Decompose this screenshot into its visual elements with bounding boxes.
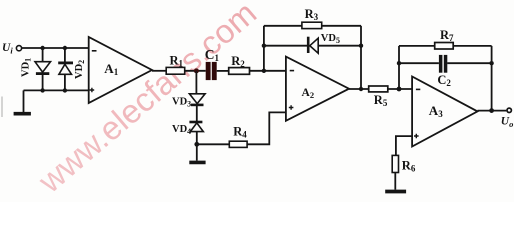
node Ui input terminal — [16, 46, 21, 51]
resistor R1 — [166, 67, 185, 74]
wire R1 to C1 — [185, 70, 206, 72]
svg-text:VD5: VD5 — [321, 33, 340, 45]
svg-text:VD4: VD4 — [172, 124, 191, 136]
wire C2 rail — [399, 62, 492, 64]
node junction C2 left — [397, 61, 401, 65]
wire A3 feedback left vertical — [398, 46, 400, 89]
wire A3 non-inverting to R6 — [396, 136, 412, 155]
diode VD2 — [59, 64, 72, 74]
svg-text:Ui: Ui — [2, 42, 13, 56]
resistor R3 — [302, 22, 322, 28]
node junction VD5 right — [359, 44, 363, 48]
svg-text:A2: A2 — [302, 87, 315, 100]
svg-text:A1: A1 — [104, 61, 118, 77]
svg-text:R7: R7 — [440, 28, 454, 43]
node junction top VD1 — [40, 46, 44, 50]
wire R6 to ground — [394, 173, 396, 190]
wire A1 output to R1 — [152, 70, 166, 72]
svg-text:A3: A3 — [429, 103, 443, 119]
svg-text:C2: C2 — [437, 73, 451, 88]
node junction A2 output — [359, 87, 363, 91]
capacitor C1 — [206, 62, 211, 80]
wire to ground left — [23, 90, 25, 112]
svg-text:R6: R6 — [402, 159, 416, 174]
node junction before C1 — [194, 68, 199, 73]
capacitor C2 — [439, 55, 443, 73]
diode VD1 — [35, 62, 51, 72]
wire R2 to A2 inverting — [250, 70, 286, 72]
wire R5 to A3 — [388, 88, 412, 90]
wire to ground middle — [196, 144, 198, 160]
diode VD4 — [190, 123, 203, 132]
node junction A3 feedback left — [397, 87, 402, 92]
svg-text:VD2: VD2 — [74, 60, 86, 79]
wire VD2 branch — [64, 48, 66, 90]
diode VD3 — [189, 94, 205, 104]
scan artifact left edge — [1, 97, 3, 118]
node junction bottom VD1 — [40, 88, 44, 92]
ground left — [14, 112, 31, 116]
wire A2 output — [349, 88, 369, 90]
node junction top VD2 — [63, 46, 67, 50]
node junction A2 feedback left — [262, 69, 266, 73]
svg-text:R5: R5 — [374, 93, 388, 108]
wire feedback left vertical — [263, 26, 265, 71]
resistor R5 — [369, 86, 388, 92]
wire A3 feedback right vertical — [491, 46, 493, 111]
op-amp A2 — [286, 57, 349, 121]
svg-text:VD1: VD1 — [21, 58, 33, 77]
wire C1 to R2 — [217, 70, 229, 72]
ground middle — [189, 161, 205, 165]
wire R7 top rail — [399, 45, 492, 47]
wire A3 output — [478, 110, 507, 112]
wire R3 top rail — [264, 25, 361, 27]
resistor R2 — [229, 68, 250, 75]
wire VD3 branch down — [195, 71, 197, 144]
resistor R7 — [435, 43, 454, 50]
node junction bottom VD2 — [63, 88, 67, 92]
wire R4 rail — [197, 112, 286, 144]
wire VD5 rail — [264, 45, 361, 47]
node junction R4 — [194, 142, 199, 147]
op-amp A1 — [89, 37, 152, 103]
op-amp A3 — [412, 77, 477, 147]
node junction A3 output — [489, 108, 494, 113]
ground right — [385, 190, 406, 194]
node junction VD5 left — [262, 44, 266, 48]
svg-text:Uo: Uo — [501, 116, 514, 130]
wire feedback right vertical — [360, 26, 362, 89]
wire input to A1 inverting — [22, 47, 89, 49]
wire bottom rail to A1 non-inverting — [24, 89, 89, 91]
svg-text:VD3: VD3 — [172, 96, 191, 108]
node Uo output terminal — [507, 108, 511, 112]
resistor R4 — [229, 141, 247, 147]
svg-text:R3: R3 — [305, 7, 319, 22]
svg-text:www.elecfans.com: www.elecfans.com — [31, 0, 264, 200]
svg-text:R4: R4 — [233, 124, 247, 139]
resistor R6 — [392, 155, 398, 172]
diode VD5 — [310, 38, 318, 53]
wire VD1 branch — [42, 48, 44, 90]
svg-text:R2: R2 — [231, 54, 245, 69]
node junction C2 right — [489, 61, 493, 65]
